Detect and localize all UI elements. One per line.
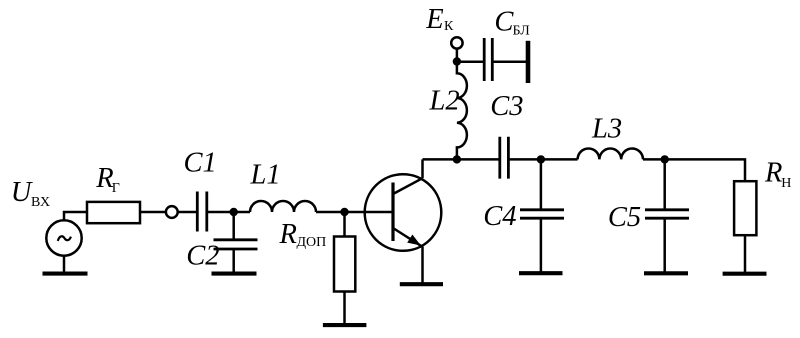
wire C3 to L3 [508,158,577,161]
tilde inside source [58,236,71,241]
wire node C down to C4 [540,159,543,209]
resistor Rg [87,202,140,223]
node C (C3/C4/L3 junction) [537,155,545,163]
capacitor C4 [520,210,564,218]
transistor emitter arrowhead [407,235,421,246]
ground (Rdop) [323,323,367,327]
svg-text:Н: Н [781,176,791,191]
ground (source) [43,272,88,276]
wire terminal to C1 [178,211,196,214]
wire source top to Rg [64,212,87,220]
transistor collector diagonal [393,178,423,194]
svg-text:C4: C4 [483,201,516,232]
svg-text:L3: L3 [591,114,622,145]
wire node to Cbl [457,61,483,64]
svg-text:L2: L2 [429,85,460,116]
resistor Rn [734,181,756,235]
ground (C2) [212,272,257,276]
svg-text:C1: C1 [184,148,217,179]
svg-text:E: E [425,4,443,35]
svg-text:C3: C3 [490,91,523,122]
capacitor Cbl [484,38,492,81]
ground (C5) [644,271,688,275]
ground (Rn) [723,272,767,276]
wire emitter down to ground [421,247,424,283]
transistor base bar [391,183,394,242]
source V1 (AC generator) [46,220,81,255]
svg-text:C2: C2 [186,240,219,271]
wire Rg to input terminal [140,211,166,214]
transistor emitter diagonal [393,228,423,247]
node L2 bottom (collector junction) [453,155,461,163]
wire C1 to L1 [207,211,250,214]
inductor L3 [578,148,643,159]
capacitor C2 [214,240,258,249]
wire node B down to Rdop [343,212,346,237]
ground (C4) [519,271,563,275]
svg-text:ВХ: ВХ [31,195,50,210]
node D (L3/C5 junction) [661,155,669,163]
node B (L1/Rdop/base junction) [340,208,348,216]
svg-text:Г: Г [112,181,120,196]
ground (emitter) [400,282,443,286]
node A (C1/C2/L1 junction) [230,208,238,216]
capacitor C3 [500,137,509,179]
wire Rdop to ground [343,292,346,324]
inductor L2 [457,49,467,160]
inductor L1 [250,201,316,212]
wire C4 to ground [540,218,543,271]
svg-text:C: C [494,7,514,38]
svg-text:R: R [764,158,782,189]
svg-text:L1: L1 [250,159,281,190]
input terminal circle [166,206,178,218]
wire Cbl to chassis bar [492,61,526,64]
wire Rn to ground [744,235,747,272]
capacitor C1 [197,192,207,232]
wire L1 to transistor base [316,211,393,214]
svg-text:ДОП: ДОП [297,235,327,250]
wire source bottom to ground [63,256,66,272]
wire C2 to ground [232,249,235,272]
terminal Ek circle [451,37,462,48]
wire node A down to C2 [232,212,235,240]
svg-text:R: R [279,219,297,250]
resistor Rdop [334,237,355,292]
node Ek junction [453,57,461,65]
wire L3 to Rn [643,159,745,181]
chassis bar (Cbl ground plate) [526,41,531,83]
svg-text:К: К [444,19,454,34]
wire node D down to C5 [663,159,666,209]
transistor Q1 circle [365,174,442,251]
wire C5 to ground [663,218,666,271]
svg-text:C5: C5 [608,202,641,233]
wire collector line to C3 [423,158,499,161]
svg-text:БЛ: БЛ [513,23,531,38]
wire collector up to top line [421,159,424,178]
capacitor C5 [645,210,689,218]
